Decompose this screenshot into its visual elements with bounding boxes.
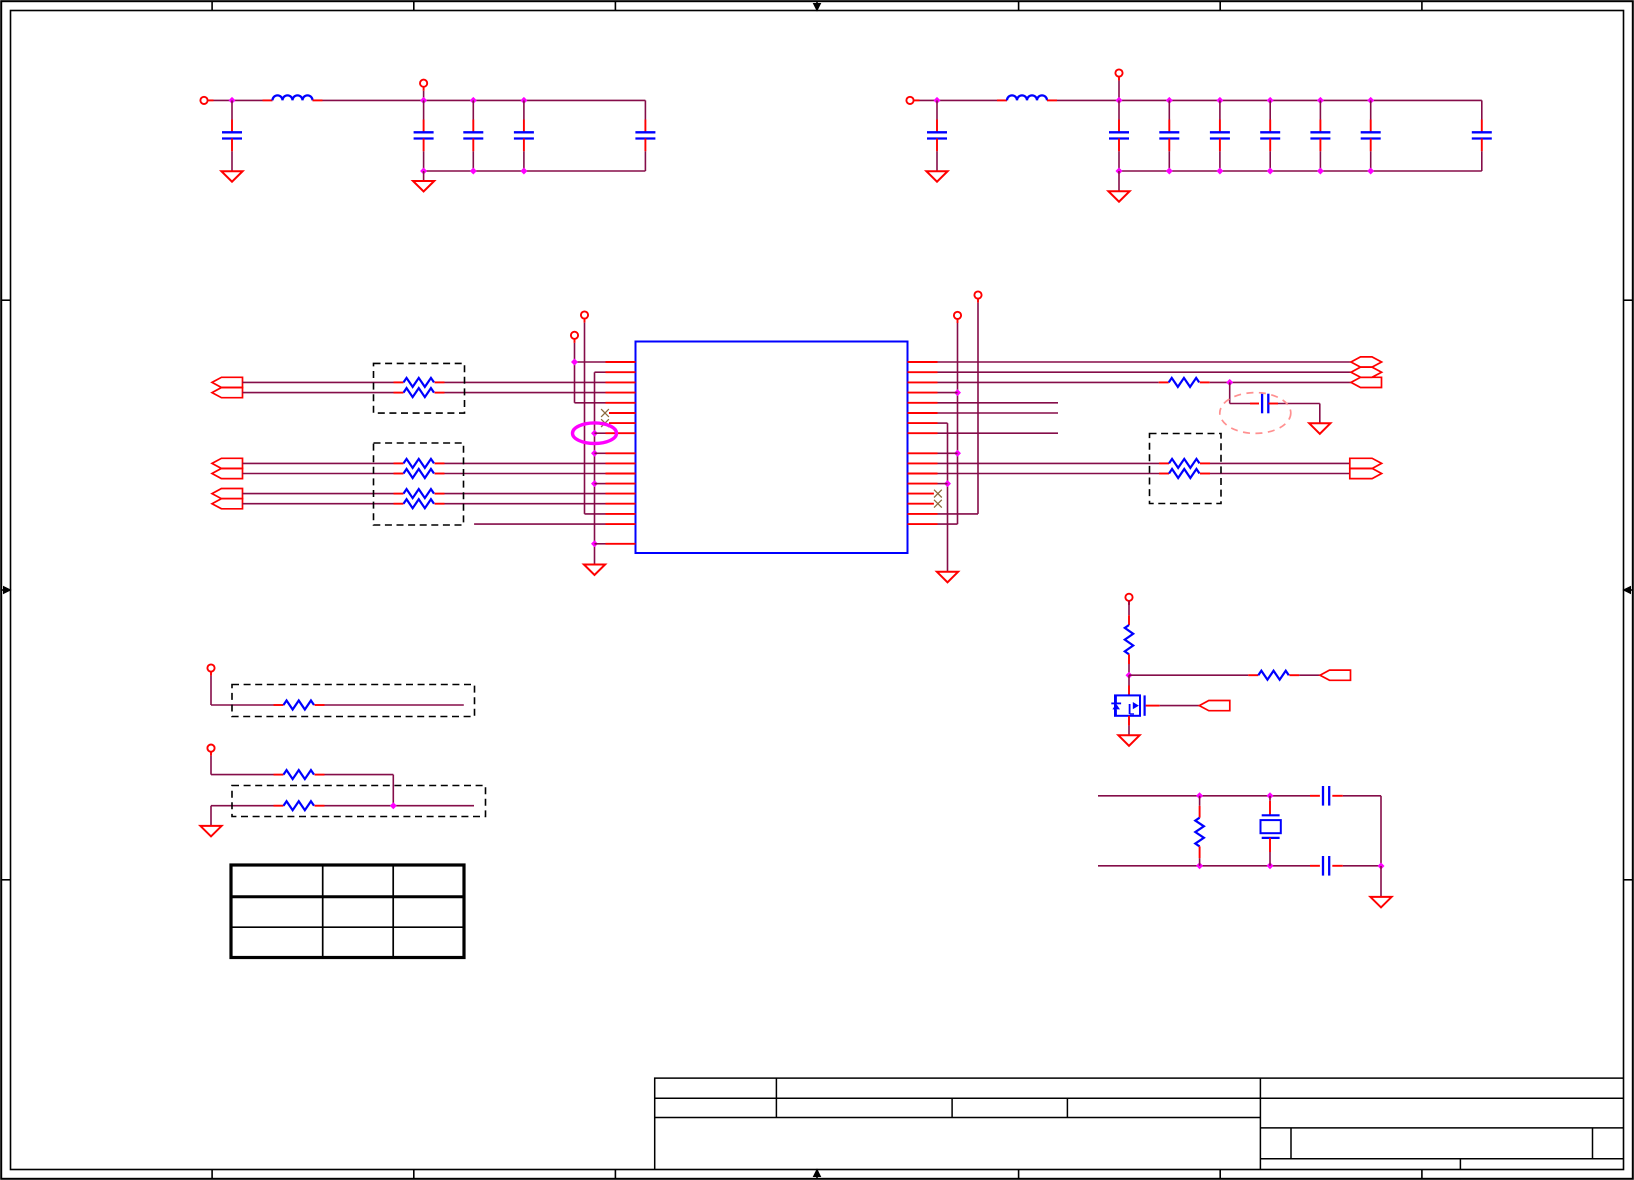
- node junction: [1317, 97, 1324, 104]
- wire: [1057, 99, 1482, 101]
- wire: [595, 452, 606, 454]
- connector B6 (left arrow): [1320, 670, 1351, 680]
- power terminal P6: [954, 312, 961, 319]
- wire: [1128, 675, 1130, 685]
- ground: [1309, 423, 1330, 434]
- junction: [1166, 168, 1173, 175]
- wire: [423, 91, 425, 101]
- junction: [954, 450, 961, 457]
- wire: [243, 381, 394, 383]
- capacitor C1: [231, 100, 233, 119]
- wire: [445, 493, 606, 495]
- pin 33 (U1 right): [908, 523, 938, 525]
- capacitor C2: [423, 100, 425, 119]
- node junction: [520, 97, 527, 104]
- series box 2 (dashed): [232, 786, 486, 817]
- wire: [1299, 674, 1320, 676]
- pin 15 (U1 left): [606, 513, 636, 515]
- change-mark ellipse (pink dashed): [1220, 393, 1291, 434]
- junction: [1226, 379, 1233, 386]
- wire: [1343, 865, 1381, 867]
- pin 5 (U1 left): [606, 402, 636, 404]
- node A2 junction: [420, 97, 427, 104]
- ground: [1370, 897, 1391, 908]
- wire: [445, 392, 606, 394]
- capacitor C9: [1219, 100, 1221, 119]
- wire: [1210, 473, 1350, 475]
- resistor R4: [394, 473, 404, 475]
- pin 3 (U1 left): [606, 381, 636, 383]
- wire: [920, 99, 998, 101]
- node A1 junction: [229, 97, 236, 104]
- wire: [1118, 81, 1120, 101]
- resistor R11: [274, 774, 284, 776]
- resistor R7: [1159, 381, 1169, 383]
- ground: [413, 181, 434, 192]
- wire: [214, 99, 263, 101]
- connector A2 (left arrow): [212, 388, 243, 398]
- no-connect X pin7: [601, 419, 609, 427]
- wire: [1210, 462, 1350, 464]
- wire: [1210, 381, 1351, 383]
- wire: [575, 361, 606, 363]
- node junction: [1267, 97, 1274, 104]
- wire: [325, 704, 464, 706]
- wire (net VDD1): [584, 323, 586, 514]
- wire: [243, 503, 394, 505]
- junction: [420, 168, 427, 175]
- resistor R2: [394, 392, 404, 394]
- op-amp/IC U1 body: [636, 342, 908, 554]
- connector B1 (bidirectional): [1351, 357, 1382, 367]
- node junction: [1216, 97, 1223, 104]
- junction: [591, 430, 598, 437]
- power terminal P4: [571, 332, 578, 339]
- highlight ellipse (magenta): [573, 423, 617, 444]
- resistor R8: [1159, 462, 1169, 464]
- pin 18 (U1 right): [908, 361, 938, 363]
- connector B7 (left arrow): [1199, 701, 1230, 711]
- resistor R12: [274, 805, 284, 807]
- wire (net stub to pin 16): [474, 523, 605, 525]
- junction: [1216, 168, 1223, 175]
- wire (net VCC2): [957, 323, 959, 524]
- wire: [210, 676, 212, 705]
- ground: [926, 171, 947, 182]
- wire: [1129, 674, 1248, 676]
- pin 28 (U1 right): [908, 473, 938, 475]
- wire (ground bus right): [938, 422, 948, 424]
- wire: [595, 543, 606, 545]
- connector A1 (left arrow): [212, 377, 243, 387]
- resistor R10: [274, 704, 284, 706]
- wire: [1380, 866, 1382, 897]
- junction: [591, 540, 598, 547]
- wire: [445, 381, 606, 383]
- capacitor C6: [936, 100, 938, 119]
- wire: [1278, 403, 1320, 405]
- power terminal P1: [420, 80, 427, 87]
- wire (dangling net): [938, 432, 1059, 434]
- resistor R15: [1199, 796, 1201, 806]
- junction: [944, 480, 951, 487]
- pin 31 (U1 right, no-connect): [908, 503, 934, 505]
- connector B4 (right arrow): [1350, 458, 1382, 468]
- wire: [938, 473, 1160, 475]
- connector B2 (bidirectional): [1351, 367, 1382, 377]
- junction: [1317, 168, 1324, 175]
- pin 29 (U1 right): [908, 483, 938, 485]
- terminal J2 (filter B input): [906, 97, 913, 104]
- ground: [1118, 735, 1139, 746]
- resistor pack box 3 (dashed): [1150, 434, 1222, 504]
- wire: [325, 805, 475, 807]
- pin 7 (U1 left, no-connect): [609, 422, 636, 424]
- pin 16 (U1 left): [606, 523, 636, 525]
- wire: [243, 473, 394, 475]
- resistor R1: [394, 381, 404, 383]
- terminal J3: [207, 664, 214, 671]
- pin 10 (U1 left): [606, 462, 636, 464]
- inductor L1: [263, 99, 273, 101]
- node junction: [470, 97, 477, 104]
- pin 14 (U1 left): [606, 503, 636, 505]
- wire: [1229, 382, 1231, 403]
- wire: [938, 371, 1352, 373]
- wire: [595, 432, 606, 434]
- pin 24 (U1 right): [908, 422, 938, 424]
- pin 23 (U1 right): [908, 412, 938, 414]
- junction: [1367, 168, 1374, 175]
- wire: [1160, 705, 1200, 707]
- pin 8 (U1 left): [606, 432, 636, 434]
- wire (XTAL1 rail): [1098, 795, 1310, 797]
- capacitor C10: [1269, 100, 1271, 119]
- pin 11 (U1 left): [606, 473, 636, 475]
- pin 21 (U1 right): [908, 392, 938, 394]
- connector B3 (left arrow): [1351, 377, 1382, 387]
- resistor R5: [394, 493, 404, 495]
- capacitor C7: [1118, 100, 1120, 119]
- no-connect X pin30: [934, 490, 942, 498]
- pin 1 (U1 left): [606, 361, 636, 363]
- resistor R6: [394, 503, 404, 505]
- resistor pack box 2 (dashed): [374, 443, 464, 525]
- wire: [938, 452, 958, 454]
- wire: [445, 503, 606, 505]
- capacitor C14: [1250, 403, 1259, 405]
- capacitor C13: [1481, 100, 1483, 119]
- ground: [1108, 191, 1129, 202]
- wire: [1343, 795, 1381, 797]
- junction: [1196, 862, 1203, 869]
- wire (dangling net): [938, 402, 1059, 404]
- junction: [1378, 863, 1385, 870]
- connector A4 (left arrow): [212, 468, 243, 478]
- capacitor C12: [1370, 100, 1372, 119]
- options table: [231, 865, 464, 958]
- resistor R13 (pull-up): [1128, 615, 1130, 625]
- wire (ground bus): [595, 371, 606, 373]
- source pin: [1128, 716, 1130, 726]
- wire: [210, 806, 212, 826]
- wire: [938, 381, 1159, 383]
- pin 20 (U1 right): [908, 381, 938, 383]
- capacitor C11: [1319, 100, 1321, 119]
- junction: [390, 802, 397, 809]
- terminal J4: [207, 745, 214, 752]
- junction: [1267, 792, 1274, 799]
- pin 32 (U1 right): [908, 513, 938, 515]
- wire: [938, 483, 948, 485]
- resistor R3: [394, 462, 404, 464]
- pin 26 (U1 right): [908, 452, 938, 454]
- wire: [938, 462, 1160, 464]
- wire: [1128, 726, 1130, 736]
- wire: [210, 756, 212, 775]
- power terminal P7: [1125, 594, 1132, 601]
- title block: [655, 1078, 1624, 1169]
- resistor R14: [1248, 674, 1258, 676]
- pin 27 (U1 right): [908, 462, 938, 464]
- junction: [470, 168, 477, 175]
- ground: [200, 826, 221, 837]
- pin 30 (U1 right, no-connect): [908, 493, 934, 495]
- ground: [937, 572, 958, 583]
- power terminal P5: [974, 291, 981, 298]
- connector A6 (left arrow): [212, 499, 243, 509]
- connector A3 (left arrow): [212, 458, 243, 468]
- wire: [1118, 171, 1120, 191]
- pin 19 (U1 right): [908, 371, 938, 373]
- no-connect X pin31: [934, 500, 942, 508]
- power terminal P2: [1115, 69, 1122, 76]
- wire: [595, 483, 606, 485]
- terminal J1 (filter A input): [200, 97, 207, 104]
- junction: [1116, 168, 1123, 175]
- junction: [571, 359, 578, 366]
- junction: [1267, 862, 1274, 869]
- pin 22 (U1 right): [908, 402, 938, 404]
- junction: [1196, 792, 1203, 799]
- junction: [954, 389, 961, 396]
- wire: [445, 473, 606, 475]
- wire (XTAL2 rail): [1098, 865, 1310, 867]
- gate pin: [1146, 705, 1160, 707]
- ground: [584, 565, 605, 576]
- node junction: [1116, 97, 1123, 104]
- node junction: [1166, 97, 1173, 104]
- wire (net VCC1): [977, 303, 979, 514]
- junction: [591, 450, 598, 457]
- wire (bottom rail B): [1119, 170, 1482, 172]
- capacitor C15: [1310, 795, 1320, 797]
- inductor L2: [997, 99, 1007, 101]
- capacitor C8: [1168, 100, 1170, 119]
- capacitor C16: [1310, 865, 1320, 867]
- pin 17 (U1 left): [606, 543, 636, 545]
- pin 4 (U1 left): [606, 392, 636, 394]
- wire: [1128, 601, 1130, 615]
- connector A5 (left arrow): [212, 489, 243, 499]
- capacitor C5: [644, 100, 646, 119]
- node B1 junction: [934, 97, 941, 104]
- resistor R9: [1159, 473, 1169, 475]
- capacitor C3: [472, 100, 474, 119]
- junction: [520, 168, 527, 175]
- pin 12 (U1 left): [606, 483, 636, 485]
- node junction: [1367, 97, 1374, 104]
- resistor pack box (dashed): [374, 363, 465, 413]
- no-connect X pin6: [601, 409, 609, 417]
- wire: [243, 392, 394, 394]
- pin 6 (U1 left, no-connect): [609, 412, 636, 414]
- pin 2 (U1 left): [606, 371, 636, 373]
- pin 25 (U1 right): [908, 432, 938, 434]
- wire: [243, 493, 394, 495]
- wire: [938, 392, 958, 394]
- wire (dangling net): [938, 412, 1059, 414]
- junction: [591, 480, 598, 487]
- wire: [445, 462, 606, 464]
- transistor Q1 (N-MOSFET): [1128, 686, 1130, 696]
- series box 1 (dashed): [232, 685, 475, 717]
- ground: [221, 171, 242, 182]
- wire: [1128, 664, 1130, 675]
- wire (net VDD2): [574, 343, 576, 403]
- wire: [243, 462, 394, 464]
- wire: [325, 774, 394, 776]
- wire: [323, 99, 646, 101]
- capacitor C4: [523, 100, 525, 119]
- pin 13 (U1 left): [606, 493, 636, 495]
- crystal Y1: [1269, 796, 1271, 801]
- pin 9 (U1 left): [606, 452, 636, 454]
- wire: [938, 361, 1352, 363]
- junction: [1267, 168, 1274, 175]
- power terminal P3: [581, 311, 588, 318]
- connector B5 (right arrow): [1350, 468, 1382, 478]
- wire: [211, 805, 274, 807]
- wire: [423, 171, 425, 181]
- wire (bottom rail A): [424, 170, 646, 172]
- junction: [1126, 672, 1133, 679]
